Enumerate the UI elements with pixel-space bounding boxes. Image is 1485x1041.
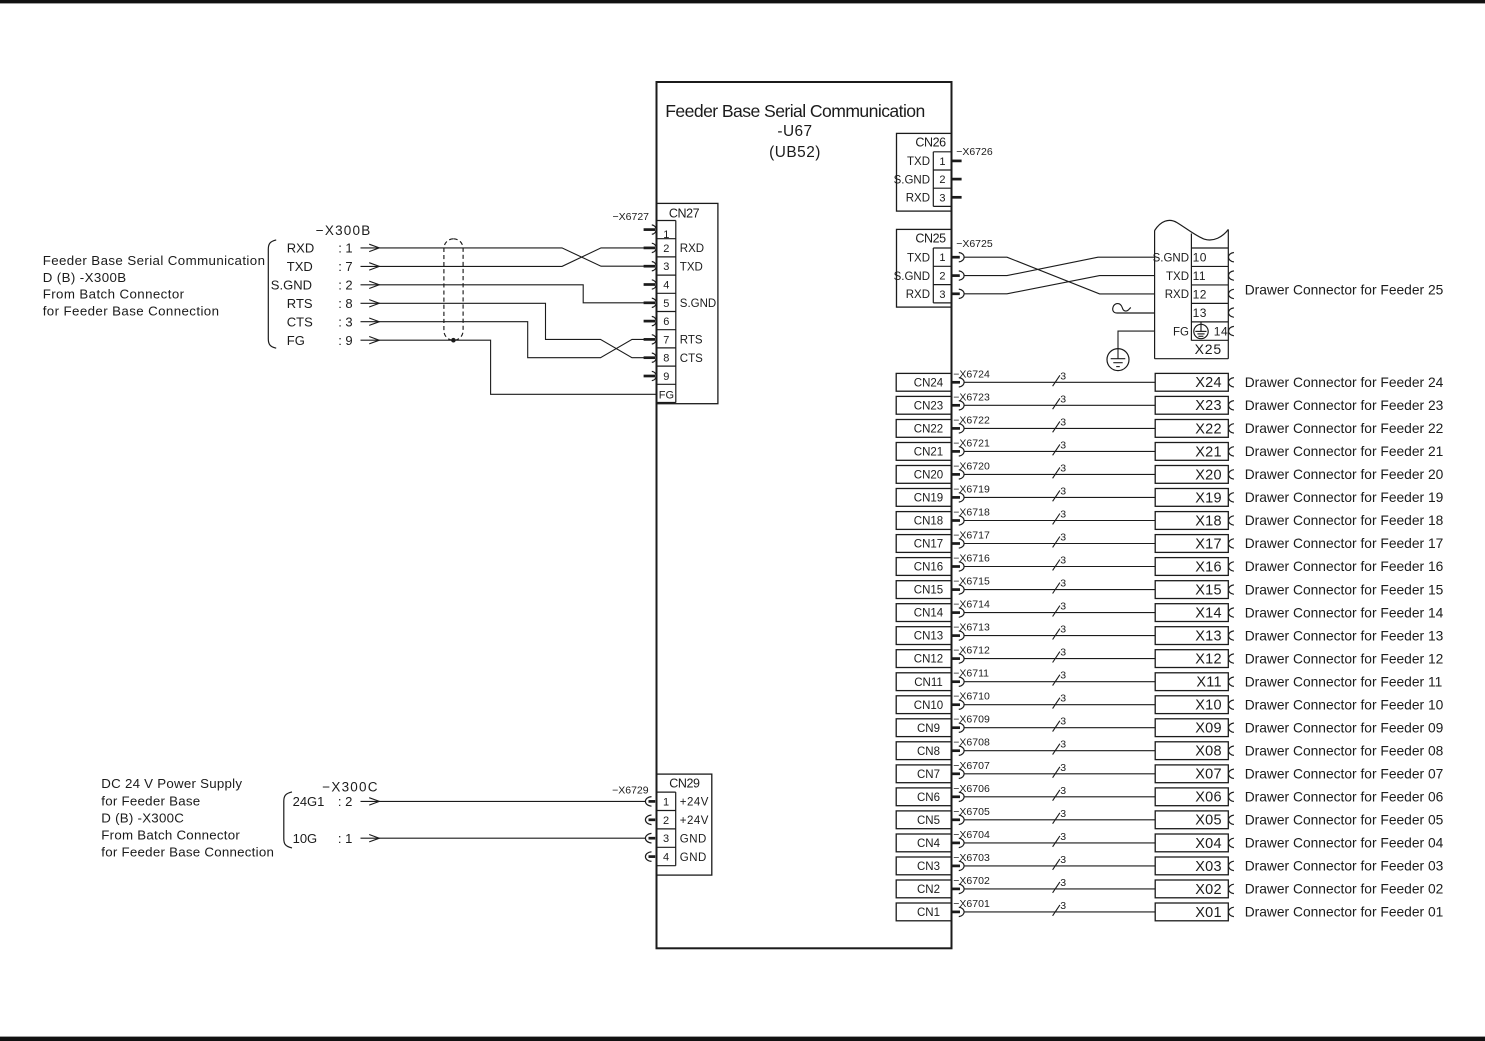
svg-text:CN8: CN8	[917, 746, 940, 758]
svg-text:CN25: CN25	[915, 232, 946, 246]
svg-text:Drawer Connector for Feeder 16: Drawer Connector for Feeder 16	[1245, 559, 1444, 574]
X25 pin 13	[1193, 306, 1234, 320]
svg-text:Drawer Connector for Feeder 23: Drawer Connector for Feeder 23	[1245, 398, 1444, 413]
svg-text:Drawer Connector for Feeder 25: Drawer Connector for Feeder 25	[1245, 283, 1444, 298]
svg-text:X18: X18	[1195, 513, 1222, 529]
svg-text:CN21: CN21	[914, 447, 943, 459]
connector CN6	[896, 788, 964, 806]
wire CN19 to X19	[964, 496, 1155, 498]
label Drawer Connector for Feeder 07	[1245, 767, 1444, 782]
label -X6715	[953, 576, 990, 588]
svg-text:CN20: CN20	[914, 470, 943, 482]
svg-text:CN18: CN18	[914, 516, 943, 528]
svg-text:for Feeder Base: for Feeder Base	[101, 793, 200, 808]
svg-text:Drawer Connector for Feeder 11: Drawer Connector for Feeder 11	[1245, 674, 1443, 689]
svg-text:Drawer Connector for Feeder 09: Drawer Connector for Feeder 09	[1245, 720, 1444, 735]
label Drawer Connector for Feeder 01	[1245, 905, 1444, 920]
label -X6709	[953, 714, 990, 726]
X25 pin 14 (FG)	[1173, 325, 1234, 339]
svg-text:+24V: +24V	[680, 815, 709, 827]
brace -X300C signal group	[284, 792, 292, 848]
connector CN11	[896, 673, 964, 691]
svg-text:−X6713: −X6713	[953, 622, 990, 634]
label Drawer Connector for Feeder 20	[1245, 467, 1444, 482]
label -X6707	[953, 760, 990, 772]
label Drawer Connector for Feeder 13	[1245, 628, 1444, 643]
svg-text:CN9: CN9	[917, 723, 940, 735]
svg-text:CTS: CTS	[287, 314, 313, 329]
svg-text:From Batch Connector: From Batch Connector	[43, 287, 185, 302]
svg-text:RTS: RTS	[680, 335, 703, 347]
bundle mark 3 conductors	[1053, 578, 1067, 594]
svg-text:CN2: CN2	[917, 884, 940, 896]
connector CN23	[896, 396, 964, 414]
cable shield (dashed)	[444, 239, 463, 340]
drawer connector X06	[1155, 788, 1234, 806]
svg-text:X25: X25	[1195, 341, 1222, 357]
drawer connector X17	[1155, 535, 1234, 553]
label -X6727	[613, 211, 650, 223]
connector CN7	[896, 765, 964, 783]
svg-text:3: 3	[663, 261, 669, 273]
wire TXD :7 to CN27 pin 2 (crossover)	[379, 248, 644, 267]
svg-text:−X6729: −X6729	[612, 784, 649, 796]
svg-text:3: 3	[1060, 900, 1066, 912]
svg-text:1: 1	[939, 252, 945, 264]
wire RTS :8 to CN27 pin 8 (crossover)	[379, 303, 644, 357]
drawer connector X13	[1155, 627, 1234, 645]
label -X6725	[956, 238, 993, 250]
connector CN5	[896, 811, 964, 829]
svg-text:+24V: +24V	[680, 797, 709, 809]
svg-text:−X6722: −X6722	[953, 414, 990, 426]
CN27 pin 9	[644, 371, 670, 383]
svg-text:CN11: CN11	[914, 677, 943, 689]
svg-text:X09: X09	[1195, 721, 1222, 737]
bundle mark 3 conductors	[1053, 462, 1067, 478]
svg-text:3: 3	[1060, 601, 1066, 613]
svg-text:RXD: RXD	[287, 241, 314, 256]
wire CN3 to X03	[964, 865, 1155, 867]
svg-text:X20: X20	[1195, 467, 1222, 483]
bundle mark 3 conductors	[1053, 485, 1067, 501]
CN29 pin cell column	[657, 792, 676, 866]
wire CN17 to X17	[964, 543, 1155, 545]
feeder base serial communication unit -U67 box	[657, 82, 952, 948]
bundle mark 3 conductors	[1053, 601, 1067, 617]
svg-text:X07: X07	[1195, 767, 1222, 783]
CN25 pin 3 (RXD)	[906, 289, 964, 301]
svg-text:3: 3	[1060, 393, 1066, 405]
svg-text:: 3: : 3	[338, 314, 352, 329]
connector CN21	[896, 443, 964, 461]
svg-text:3: 3	[1060, 670, 1066, 682]
svg-text:3: 3	[1060, 739, 1066, 751]
svg-text:for Feeder Base Connection: for Feeder Base Connection	[43, 304, 220, 319]
svg-text:Drawer Connector for Feeder 17: Drawer Connector for Feeder 17	[1245, 536, 1444, 551]
label Drawer Connector for Feeder 21	[1245, 444, 1444, 459]
CN27 pin 8	[644, 353, 704, 365]
node 24G1 :2 of -X300C	[293, 794, 380, 809]
svg-text:RXD: RXD	[680, 243, 704, 255]
svg-text:−X6726: −X6726	[956, 146, 993, 158]
svg-text:CN4: CN4	[917, 838, 941, 850]
label Drawer Connector for Feeder 15	[1245, 582, 1444, 597]
connector CN29	[657, 774, 712, 875]
label Drawer Connector for Feeder 12	[1245, 651, 1444, 666]
CN27 pin 2	[644, 243, 704, 255]
label -X6718	[953, 507, 990, 519]
svg-text:CTS: CTS	[680, 353, 703, 365]
svg-text:S.GND: S.GND	[271, 278, 312, 293]
svg-text:X01: X01	[1195, 905, 1222, 921]
drawer connector X09	[1155, 719, 1234, 737]
svg-text:Drawer Connector for Feeder 20: Drawer Connector for Feeder 20	[1245, 467, 1444, 482]
svg-text:7: 7	[663, 334, 669, 346]
label -X6726	[956, 146, 993, 158]
svg-text:X03: X03	[1195, 859, 1222, 875]
svg-text:−X6721: −X6721	[953, 437, 990, 449]
svg-text:Drawer Connector for Feeder 14: Drawer Connector for Feeder 14	[1245, 605, 1444, 620]
connector CN12	[896, 650, 964, 668]
wire CN6 to X06	[964, 796, 1155, 798]
svg-text:3: 3	[1060, 439, 1066, 451]
drawer connector X24	[1155, 373, 1234, 391]
wire CN4 to X04	[964, 842, 1155, 844]
bundle mark 3 conductors	[1053, 670, 1067, 686]
svg-text:2: 2	[939, 174, 945, 186]
svg-text:3: 3	[1060, 509, 1066, 521]
drawer connector X01	[1155, 903, 1234, 921]
drawer connector X16	[1155, 558, 1234, 576]
bundle mark 3 conductors	[1053, 716, 1067, 732]
svg-text:TXD: TXD	[680, 261, 703, 273]
label Drawer Connector for Feeder 02	[1245, 882, 1444, 897]
svg-text:X11: X11	[1196, 675, 1221, 691]
svg-text:for Feeder Base Connection: for Feeder Base Connection	[101, 844, 274, 859]
svg-text:Feeder Base Serial Communicati: Feeder Base Serial Communication	[43, 253, 266, 268]
drawer connector X14	[1155, 604, 1234, 622]
svg-text:8: 8	[663, 353, 669, 365]
svg-text:Drawer Connector for Feeder 08: Drawer Connector for Feeder 08	[1245, 743, 1444, 758]
svg-text:−X6705: −X6705	[953, 806, 990, 818]
node RXD :1 of -X300B	[287, 241, 380, 256]
svg-text:From Batch Connector: From Batch Connector	[101, 828, 240, 843]
label -X6710	[953, 691, 990, 703]
svg-text:(UB52): (UB52)	[769, 144, 821, 161]
wire CTS :3 to CN27 pin 7 (crossover)	[379, 322, 644, 358]
svg-text:RXD: RXD	[906, 193, 930, 205]
svg-text:X04: X04	[1195, 836, 1222, 852]
svg-text:Drawer Connector for Feeder 18: Drawer Connector for Feeder 18	[1245, 513, 1444, 528]
wire CN14 to X14	[964, 612, 1155, 614]
label Drawer Connector for Feeder 10	[1245, 697, 1444, 712]
wire CN22 to X22	[964, 427, 1155, 429]
connector CN22	[896, 420, 964, 438]
svg-text:−X6703: −X6703	[953, 852, 990, 864]
svg-text:TXD: TXD	[287, 259, 313, 274]
svg-text:X10: X10	[1195, 698, 1222, 714]
svg-text:S.GND: S.GND	[1153, 252, 1189, 264]
label -X6713	[953, 622, 990, 634]
CN26 pin 2 (S.GND)	[894, 174, 962, 186]
label -X6720	[953, 460, 990, 472]
CN27 pin 6	[644, 316, 670, 328]
CN27 pin 5	[644, 298, 717, 310]
svg-text:−X6708: −X6708	[953, 737, 990, 749]
svg-text:−X6706: −X6706	[953, 783, 990, 795]
svg-text:−X6723: −X6723	[953, 391, 990, 403]
svg-text:12: 12	[1193, 287, 1207, 301]
connector CN4	[896, 834, 964, 852]
svg-text:3: 3	[1060, 416, 1066, 428]
svg-text:3: 3	[1060, 785, 1066, 797]
label -X300B	[316, 223, 372, 238]
wire CN8 to X08	[964, 750, 1155, 752]
svg-text:: 1: : 1	[338, 831, 352, 846]
label Drawer Connector for Feeder 05	[1245, 813, 1444, 828]
wire CN24 to X24	[964, 381, 1155, 383]
svg-text:−X6715: −X6715	[953, 576, 990, 588]
drawer connector X19	[1155, 489, 1234, 507]
svg-text:CN1: CN1	[917, 907, 940, 919]
label Drawer Connector for Feeder 24	[1245, 375, 1444, 390]
svg-text:TXD: TXD	[907, 156, 930, 168]
svg-text:FG: FG	[287, 333, 305, 348]
svg-text:TXD: TXD	[1166, 271, 1189, 283]
wire CN5 to X05	[964, 819, 1155, 821]
svg-text:CN27: CN27	[669, 207, 700, 221]
wire S.GND :2 to CN27 pin 5	[379, 285, 644, 303]
bundle mark 3 conductors	[1053, 393, 1067, 409]
svg-text:3: 3	[1060, 854, 1066, 866]
label -X6724	[953, 368, 990, 380]
svg-text:2: 2	[939, 271, 945, 283]
connector CN25	[897, 229, 952, 307]
drawer connector X12	[1155, 650, 1234, 668]
drawer connector X15	[1155, 581, 1234, 599]
label title -U67 (UB52)	[665, 101, 924, 161]
svg-text:X16: X16	[1195, 559, 1222, 575]
label -X6704	[953, 829, 990, 841]
bundle mark 3 conductors	[1053, 693, 1067, 709]
label -X6729	[612, 784, 649, 796]
svg-text:CN5: CN5	[917, 815, 940, 827]
label Drawer Connector for Feeder 03	[1245, 859, 1444, 874]
brace -X300B signal group	[268, 240, 276, 348]
node S.GND :2 of -X300B	[271, 278, 380, 293]
wire CN10 to X10	[964, 704, 1155, 706]
CN26 pin 1 (TXD)	[907, 156, 962, 168]
svg-text:X19: X19	[1195, 490, 1222, 506]
bundle mark 3 conductors	[1053, 808, 1067, 824]
connector CN9	[896, 719, 964, 737]
svg-text:−X300B: −X300B	[316, 223, 372, 238]
svg-text:4: 4	[663, 852, 669, 864]
bundle mark 3 conductors	[1053, 900, 1067, 916]
svg-text:Drawer Connector for Feeder 07: Drawer Connector for Feeder 07	[1245, 767, 1444, 782]
svg-text:Drawer Connector for Feeder 21: Drawer Connector for Feeder 21	[1245, 444, 1444, 459]
connector CN14	[896, 604, 964, 622]
svg-text:GND: GND	[680, 852, 707, 864]
bundle mark 3 conductors	[1053, 762, 1067, 778]
svg-text:14: 14	[1214, 325, 1228, 339]
svg-text:9: 9	[663, 371, 669, 383]
connector CN8	[896, 742, 964, 760]
bundle mark 3 conductors	[1053, 785, 1067, 801]
connector CN24	[896, 373, 964, 391]
label -X6701	[953, 898, 990, 910]
connector CN2	[896, 880, 964, 898]
drawer connector X04	[1155, 834, 1234, 852]
svg-text:CN13: CN13	[914, 631, 943, 643]
label -X6719	[953, 483, 990, 495]
svg-text:CN26: CN26	[915, 136, 946, 150]
CN26 pin cell column	[933, 152, 951, 207]
CN25 pin 2 (S.GND)	[894, 271, 965, 283]
label Drawer Connector for Feeder 18	[1245, 513, 1444, 528]
CN29 pin 1 (+24V)	[645, 796, 709, 808]
svg-text:CN12: CN12	[914, 654, 943, 666]
svg-text:−X300C: −X300C	[322, 779, 378, 794]
svg-text:3: 3	[939, 192, 945, 204]
svg-text:-U67: -U67	[777, 123, 812, 140]
CN27 FG terminal	[659, 390, 674, 402]
connector CN13	[896, 627, 964, 645]
svg-text:: 9: : 9	[338, 333, 352, 348]
svg-text:−X6714: −X6714	[953, 599, 990, 611]
CN27 pin 7	[644, 334, 703, 346]
svg-text:CN14: CN14	[914, 608, 944, 620]
svg-text:3: 3	[1060, 578, 1066, 590]
svg-text:X15: X15	[1195, 583, 1222, 599]
CN25 pin cell column	[933, 248, 951, 303]
svg-text:Feeder Base Serial Communicati: Feeder Base Serial Communication	[665, 101, 924, 121]
bundle mark 3 conductors	[1053, 854, 1067, 870]
svg-text:3: 3	[1060, 624, 1066, 636]
label -X6703	[953, 852, 990, 864]
label Drawer Connector for Feeder 14	[1245, 605, 1444, 620]
svg-text:Drawer Connector for Feeder 15: Drawer Connector for Feeder 15	[1245, 582, 1444, 597]
CN27 pin 3	[644, 261, 703, 273]
svg-text:−X6719: −X6719	[953, 483, 990, 495]
label Drawer Connector for Feeder 25	[1245, 283, 1444, 298]
drawer connector X07	[1155, 765, 1234, 783]
svg-text:1: 1	[939, 156, 945, 168]
svg-text:−X6725: −X6725	[956, 238, 993, 250]
svg-text:X24: X24	[1195, 375, 1222, 391]
label -X6716	[953, 553, 990, 565]
wire CN7 to X07	[964, 773, 1155, 775]
wire CN12 to X12	[964, 658, 1155, 660]
label Drawer Connector for Feeder 09	[1245, 720, 1444, 735]
wire CN25 pin 3 RXD to X25 pin 11 TXD	[964, 276, 1155, 294]
X25 pin 12 (RXD)	[1165, 287, 1234, 301]
node 10G :1 of -X300C	[293, 831, 380, 846]
svg-text:RXD: RXD	[1165, 289, 1189, 301]
svg-text:−X6720: −X6720	[953, 460, 990, 472]
svg-text:Drawer Connector for Feeder 19: Drawer Connector for Feeder 19	[1245, 490, 1444, 505]
junction: shield to FG wire	[451, 338, 456, 343]
svg-text:X22: X22	[1195, 421, 1222, 437]
svg-text:CN22: CN22	[914, 424, 943, 436]
label Drawer Connector for Feeder 04	[1245, 836, 1444, 851]
wire CN11 to X11	[964, 681, 1155, 683]
wire CN16 to X16	[964, 566, 1155, 568]
connector CN1	[896, 903, 964, 921]
svg-text:−X6709: −X6709	[953, 714, 990, 726]
svg-text:3: 3	[663, 833, 669, 845]
svg-text:CN29: CN29	[669, 776, 700, 790]
label X25	[1195, 341, 1222, 357]
svg-text:6: 6	[663, 316, 669, 328]
drawer connector X11	[1155, 673, 1234, 691]
connector CN10	[896, 696, 964, 714]
node RTS :8 of -X300B	[287, 296, 380, 311]
node TXD :7 of -X300B	[287, 259, 380, 274]
svg-text:3: 3	[1060, 831, 1066, 843]
X25 pin 10 (S.GND)	[1153, 251, 1234, 265]
X25 pin cell separators	[1191, 248, 1228, 340]
svg-text:Drawer Connector for Feeder 22: Drawer Connector for Feeder 22	[1245, 421, 1444, 436]
svg-text:CN16: CN16	[914, 562, 943, 574]
svg-text:3: 3	[1060, 647, 1066, 659]
bundle mark 3 conductors	[1053, 439, 1067, 455]
svg-text:Drawer Connector for Feeder 03: Drawer Connector for Feeder 03	[1245, 859, 1444, 874]
svg-text:CN3: CN3	[917, 861, 940, 873]
svg-text:CN6: CN6	[917, 792, 940, 804]
svg-text:Drawer Connector for Feeder 01: Drawer Connector for Feeder 01	[1245, 905, 1444, 920]
svg-text:13: 13	[1193, 306, 1207, 320]
drawer connector X20	[1155, 466, 1234, 484]
drawer connector X03	[1155, 857, 1234, 875]
svg-text:RXD: RXD	[906, 289, 930, 301]
drawer connector X22	[1155, 420, 1234, 438]
svg-text:Drawer Connector for Feeder 12: Drawer Connector for Feeder 12	[1245, 651, 1444, 666]
svg-text:X21: X21	[1195, 444, 1222, 460]
bundle mark 3 conductors	[1053, 509, 1067, 525]
svg-text:Drawer Connector for Feeder 02: Drawer Connector for Feeder 02	[1245, 882, 1444, 897]
bundle mark 3 conductors	[1053, 532, 1067, 548]
wire CN23 to X23	[964, 404, 1155, 406]
svg-text:DC 24 V Power Supply: DC 24 V Power Supply	[101, 776, 242, 791]
bundle mark 3 conductors	[1053, 831, 1067, 847]
label Drawer Connector for Feeder 11	[1245, 674, 1443, 689]
svg-text:3: 3	[1060, 485, 1066, 497]
svg-text:−X6727: −X6727	[613, 211, 650, 223]
wire CN18 to X18	[964, 520, 1155, 522]
wire CN13 to X13	[964, 635, 1155, 637]
wire CN2 to X02	[964, 888, 1155, 890]
svg-text:11: 11	[1193, 269, 1206, 283]
svg-text:Drawer Connector for Feeder 06: Drawer Connector for Feeder 06	[1245, 790, 1444, 805]
svg-text:S.GND: S.GND	[894, 174, 930, 186]
connector CN20	[896, 466, 964, 484]
CN27 pin 1	[644, 225, 670, 241]
svg-text:FG: FG	[1173, 326, 1189, 338]
label -X6723	[953, 391, 990, 403]
svg-text:5: 5	[663, 298, 669, 310]
svg-text:−X6702: −X6702	[953, 875, 990, 887]
X25 pin 11 (TXD)	[1166, 269, 1234, 283]
svg-text:−X6704: −X6704	[953, 829, 990, 841]
svg-text:D (B) -X300C: D (B) -X300C	[101, 810, 184, 825]
svg-text:: 7: : 7	[338, 259, 352, 274]
svg-text:X13: X13	[1195, 629, 1222, 645]
svg-text:24G1: 24G1	[293, 794, 325, 809]
drawer connector X10	[1155, 696, 1234, 714]
svg-text:X17: X17	[1195, 536, 1222, 552]
